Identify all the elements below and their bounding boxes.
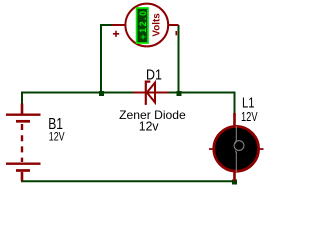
lamp L1 bulb body [214,126,259,171]
svg-text:12v: 12v [139,120,159,134]
wire top rail (battery + to lamp via zener) [22,92,236,94]
battery B1 bottom cell negative plate [16,169,30,172]
node junction lamp bottom [232,180,237,185]
lamp L1 filament [234,126,237,172]
svg-text:12V: 12V [49,131,65,143]
svg-text:+12.0: +12.0 [138,11,148,40]
svg-text:D1: D1 [146,68,162,84]
diode D1 anode triangle [147,83,155,103]
wire bottom rail (lamp to battery -) [21,180,235,182]
voltmeter VM1 pin - (right) [169,24,179,26]
lamp L1 [209,113,264,181]
battery B1 bottom cell positive plate [6,162,41,164]
voltmeter VM1 pin + (left) [112,24,126,26]
node junction J1 (zener anode / voltmeter +) [99,91,104,96]
label voltmeter plus terminal [113,31,119,37]
battery B1 [6,104,41,182]
wire voltmeter left branch [101,25,112,93]
label voltmeter minus terminal [175,31,177,35]
wire battery top segment [21,92,23,105]
diode D1 zener cathode bar with bent end [146,82,151,105]
battery B1 top cell positive plate [6,113,41,115]
lamp L1 pin bottom [233,171,236,182]
svg-text:Volts: Volts [152,13,163,37]
battery B1 top cell negative plate [16,120,30,123]
zener diode D1 [133,82,169,105]
wire voltmeter right branch [178,25,180,93]
voltmeter VM1 body circle [125,4,168,47]
diode D1 leads [133,92,169,94]
svg-text:12V: 12V [241,110,258,124]
lamp L1 side stubs [209,148,264,150]
voltmeter VM1 LCD panel [137,8,148,43]
svg-text:B1: B1 [48,116,63,133]
battery B1 dashed multi-cell link [21,124,23,162]
lamp L1 pin top [233,113,236,127]
battery B1 pin - (bottom) [21,172,24,181]
battery B1 pin + (top) [21,104,24,115]
voltmeter VM1 [112,4,179,47]
node junction J2 (zener cathode-side / voltmeter -) [177,91,182,96]
wire lamp top segment [234,92,236,115]
